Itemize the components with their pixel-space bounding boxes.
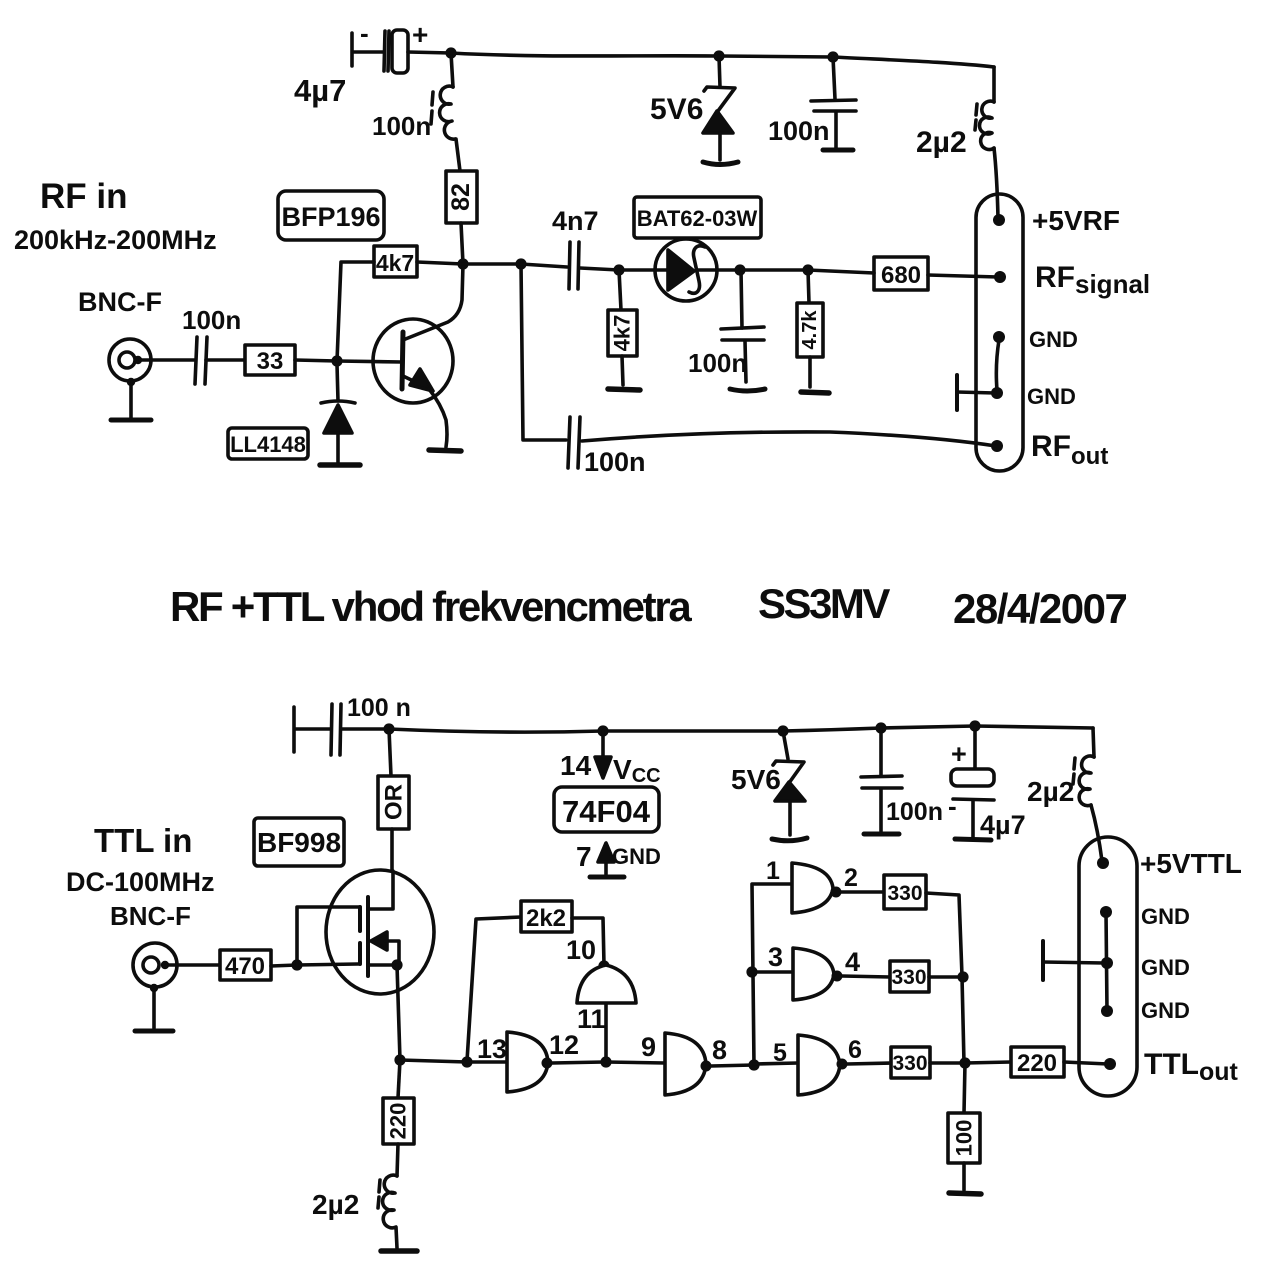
inductor L3 2u2 [1027,756,1094,807]
svg-text:74F04: 74F04 [562,794,651,829]
pin +5VRF [993,214,1005,226]
svg-text:1: 1 [766,857,780,885]
svg-text:OR: OR [381,784,408,820]
wire GND1-GND2 link [996,340,999,390]
svg-text:100n: 100n [584,447,646,477]
svg-text:2µ2: 2µ2 [916,126,967,159]
svg-text:200kHz-200MHz: 200kHz-200MHz [14,225,217,255]
ground D4 [772,838,807,841]
node TTL out junction [959,1057,970,1068]
svg-text:GND: GND [1141,955,1190,980]
gate U1C pins 10-11 [566,935,636,1061]
svg-text:2k2: 2k2 [526,905,566,932]
wire gate1 [297,964,358,965]
svg-text:+: + [412,19,428,50]
svg-text:-: - [360,18,369,48]
svg-text:2: 2 [844,864,858,892]
ground Q1 emitter [429,450,461,451]
ground R4 [608,389,640,390]
wire C2 to R3 [206,358,245,362]
svg-text:TTLout: TTLout [1144,1048,1239,1086]
ground C4 [730,389,765,391]
wire source node to gate13 node [400,1060,467,1062]
resistor R1 4k7 feedback [337,246,463,361]
svg-text:5: 5 [773,1039,787,1067]
node rail-C9 [969,720,980,731]
svg-text:330: 330 [892,1052,927,1075]
svg-text:4.7k: 4.7k [799,310,821,350]
svg-text:4: 4 [845,947,860,977]
gate U1D pins 9-8 [641,1032,754,1095]
wire rail corner to L3 [1093,728,1094,757]
node rail-C2 [827,51,838,62]
label box BAT62-03W [634,197,761,238]
node pin8 [748,1059,759,1070]
wire gate13 node up to R10 [467,917,521,1061]
wire pin5 [754,1063,798,1064]
wire C3 to node A [580,268,619,270]
pin GND2 [991,387,1003,399]
svg-text:100n: 100n [886,798,943,826]
capacitor C7 100n [294,694,411,755]
svg-text:BNC-F: BNC-F [110,901,191,931]
wire L2 to +5VRF pin [994,148,998,218]
svg-text:100n: 100n [372,111,431,141]
svg-text:-: - [948,791,957,821]
wire pin12 to gate9 [606,1062,665,1063]
resistor R7 0R [378,729,409,871]
node rail-R7 [383,723,394,734]
svg-text:13: 13 [477,1034,507,1064]
svg-text:VCC: VCC [613,754,661,787]
resistor R5 4.7k [797,270,823,387]
svg-text:5V6: 5V6 [650,93,703,126]
resistor R4 4k7 [608,270,637,385]
ground R5 [801,392,829,393]
wire base node to Q1 [337,361,402,362]
svg-text:330: 330 [891,966,926,989]
wire R3 to base node [295,360,337,361]
pin 14 Vcc arrow [560,731,661,787]
title text [170,580,1126,632]
zener D3 5V6 [650,56,735,160]
ground C8 [864,832,899,837]
wire C3 node down to C6 [521,264,566,440]
wire C6 to RFout [582,432,996,446]
svg-text:100n: 100n [768,116,830,146]
capacitor C2 100n input [182,305,241,384]
svg-text:LL4148: LL4148 [230,432,306,457]
gate U1E pins 5-6 [773,1035,862,1095]
svg-text:470: 470 [225,953,265,980]
svg-text:RFsignal: RFsignal [1035,261,1150,299]
svg-text:SS3MV: SS3MV [758,580,890,627]
resistor R12 330 [842,961,963,992]
node source [391,959,402,970]
svg-text:2µ2: 2µ2 [312,1189,359,1220]
svg-text:11: 11 [577,1004,606,1034]
diode D1 LL4148 [321,364,355,462]
gate U1A pins 1-2 [766,857,858,913]
ground D1 [320,462,360,468]
svg-text:GND: GND [612,844,661,869]
svg-text:10: 10 [566,935,596,965]
pin GND1 [993,331,1005,343]
svg-text:3: 3 [768,942,783,972]
svg-text:220: 220 [1017,1050,1057,1077]
svg-text:BAT62-03W: BAT62-03W [637,206,758,231]
wire +5V TTL rail [389,726,1093,732]
wire pin3 [752,970,793,974]
resistor R6 680 [808,257,998,290]
svg-text:680: 680 [881,262,921,289]
node source-R9 [394,1054,405,1065]
node gate13 input [461,1056,472,1067]
node B [734,264,745,275]
node rail-L1 [445,47,456,58]
svg-text:GND: GND [1029,327,1078,352]
wire gate2 loop [297,907,360,965]
svg-text:100n: 100n [182,305,241,335]
svg-text:+5VTTL: +5VTTL [1140,848,1242,879]
svg-text:TTL in: TTL in [94,822,192,859]
node rail-D1 [713,50,724,61]
node C [802,264,813,275]
ground chassis J4 [1043,941,1104,980]
label box BF998 [254,818,344,866]
svg-text:RF in: RF in [40,177,127,216]
svg-text:4n7: 4n7 [552,206,599,236]
node A [613,264,624,275]
svg-text:RFout: RFout [1031,430,1108,470]
svg-text:5V6: 5V6 [731,764,781,795]
transistor Q2 BF998 [326,870,434,994]
pin +5VTTL [1097,857,1109,869]
svg-text:9: 9 [641,1032,656,1062]
resistor R11 330 [841,875,962,976]
node pin10 [598,960,609,971]
svg-text:220: 220 [386,1103,411,1140]
capacitor C4 100n [688,270,764,382]
wire GND pins link [1106,912,1107,1011]
resistor R10 2k2 [521,901,572,932]
wire +5V RF rail [451,53,994,67]
wire node B to node C [740,268,808,272]
svg-text:DC-100MHz: DC-100MHz [66,867,215,897]
node C3 tap [515,258,526,269]
transistor Q1 BFP196 [373,264,463,447]
svg-text:4µ7: 4µ7 [294,73,346,108]
node gate [291,959,302,970]
svg-text:GND: GND [1141,998,1190,1023]
resistor R9 220 [383,1060,414,1176]
svg-text:330: 330 [887,882,922,905]
wire BNC to C2 [140,358,195,362]
resistor R14 100 [948,1063,980,1190]
resistor R8 470 [220,950,271,980]
node rail-D4 [777,725,788,736]
wire L1 to R2 [456,139,460,171]
svg-text:7: 7 [576,841,592,872]
node collector [457,258,468,269]
capacitor C9 4u7 electrolytic [948,726,1026,840]
connector J1 BNC-F [109,339,151,386]
ground J3 [135,990,173,1031]
ground chassis J2 [957,375,995,410]
wire bus pins 1-3-5 [752,884,792,1065]
node R12 out [957,971,968,982]
resistor R2 82 [446,171,477,223]
svg-text:+: + [951,739,967,769]
wire rail to L1 [451,53,453,87]
diode D2 BAT62-03W [624,239,740,301]
wire collector to C3 node [463,262,521,266]
svg-text:BNC-F: BNC-F [78,287,162,317]
capacitor C8 100n [861,728,943,831]
pin RFout [991,440,1003,452]
inductor L1 100n [372,86,455,141]
svg-text:2µ2: 2µ2 [1027,776,1074,807]
label box 74F04 U1 [554,787,659,832]
node pin12 [600,1056,611,1067]
node rail-Vcc [597,725,608,736]
ground C9 [955,839,991,840]
node pin3 tap [746,966,757,977]
resistor R15 220 [965,1047,1108,1077]
svg-text:14: 14 [560,750,592,781]
svg-text:4k7: 4k7 [376,250,414,276]
pin RFsignal [994,271,1006,283]
svg-text:33: 33 [257,348,284,375]
svg-text:12: 12 [549,1030,579,1060]
node base [331,355,342,366]
connector J3 BNC-F [133,943,177,992]
connector J2 RF header [976,194,1023,471]
wire source down [397,965,400,1060]
ground R14 [949,1193,981,1194]
capacitor C6 100n out [568,417,646,477]
wire rail corner to L2 [992,67,996,102]
capacitor C3 4n7 [552,206,599,289]
resistor R3 33 [245,345,295,375]
gate U1F pins 13-12 [467,1030,604,1092]
wire C3 node to C3 [521,264,567,267]
resistor R13 330 [847,1047,965,1078]
ground D3 [703,162,738,165]
svg-text:BF998: BF998 [257,827,341,858]
svg-text:+5VRF: +5VRF [1032,205,1120,236]
pin GND5 [1101,1005,1113,1017]
gate U1B pins 3-4 [768,942,860,1000]
label box LL4148 [228,428,308,459]
svg-text:4k7: 4k7 [610,315,635,352]
label box BFP196 [278,191,384,240]
connector J4 TTL header [1079,837,1137,1096]
wire 330 bus [962,977,964,1063]
wire R8 to gate node [271,965,297,966]
zener D4 5V6 [731,731,805,835]
svg-text:BFP196: BFP196 [281,202,380,232]
svg-text:6: 6 [848,1036,862,1064]
node rail-C8 [875,722,886,733]
svg-text:RF +TTL vhod frekvencmetra: RF +TTL vhod frekvencmetra [170,583,692,630]
wire R10 to pin10 [572,918,604,965]
svg-text:28/4/2007: 28/4/2007 [953,585,1126,632]
wire BNC to R8 [166,963,220,967]
pin GND4 [1101,957,1113,969]
pin TTLout [1104,1058,1116,1070]
capacitor C1 4u7 electrolytic [294,18,451,108]
wire R2 to collector node [461,223,463,264]
svg-text:GND: GND [1027,384,1076,409]
capacitor C5 100n [768,57,856,148]
svg-text:100 n: 100 n [347,694,411,722]
pin GND3 [1100,906,1112,918]
wire L3 to +5VTTL pin [1091,805,1102,861]
ground BNC J1 [111,384,151,420]
svg-text:GND: GND [1141,904,1190,929]
inductor L2 2u2 [916,101,994,159]
svg-text:4µ7: 4µ7 [980,810,1026,840]
svg-text:100n: 100n [688,348,747,378]
ground U1 pin7 [590,875,624,880]
inductor L4 2u2 [312,1175,397,1248]
ground L4 [381,1248,417,1254]
ground C5 [823,148,853,153]
svg-text:100: 100 [952,1120,977,1157]
svg-text:82: 82 [447,183,475,211]
pin 7 GND arrow [576,841,661,874]
svg-text:8: 8 [712,1035,727,1065]
